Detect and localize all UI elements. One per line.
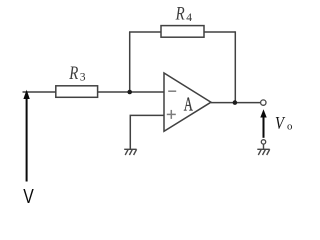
- svg-text:4: 4: [186, 11, 192, 24]
- svg-text:V: V: [23, 184, 34, 208]
- svg-text:R: R: [175, 3, 185, 24]
- op-amp plus sign: [167, 110, 176, 119]
- resistor R3: [56, 86, 98, 98]
- terminal Vo top (open circle): [261, 100, 266, 105]
- wire output: [211, 102, 260, 104]
- ground at op-amp non-inverting input: [124, 149, 136, 155]
- svg-text:3: 3: [80, 71, 86, 84]
- svg-text:R: R: [68, 62, 78, 83]
- arrow Vo output: [260, 109, 266, 138]
- resistor R4: [161, 26, 204, 38]
- op-amp minus sign: [168, 90, 176, 92]
- wire feedback top right segment: [204, 31, 235, 33]
- svg-text:o: o: [287, 121, 292, 133]
- wire non-inverting input: [130, 115, 164, 149]
- wire feedback drop right: [234, 31, 236, 102]
- wire feedback riser left: [129, 32, 131, 92]
- wire feedback top left segment: [129, 31, 161, 33]
- wire input left segment: [23, 91, 56, 93]
- node input junction: [127, 90, 132, 95]
- op-amp U1: [164, 73, 211, 131]
- terminal Vo bottom (open circle): [261, 140, 265, 144]
- node output junction: [233, 100, 238, 105]
- ground at Vo terminal: [257, 149, 269, 155]
- wire R3 to op-amp inverting input: [98, 91, 164, 93]
- arrow V input: [23, 90, 29, 182]
- wire stem bottom terminal to ground: [263, 144, 265, 149]
- svg-text:A: A: [184, 92, 194, 115]
- svg-text:V: V: [275, 112, 286, 133]
